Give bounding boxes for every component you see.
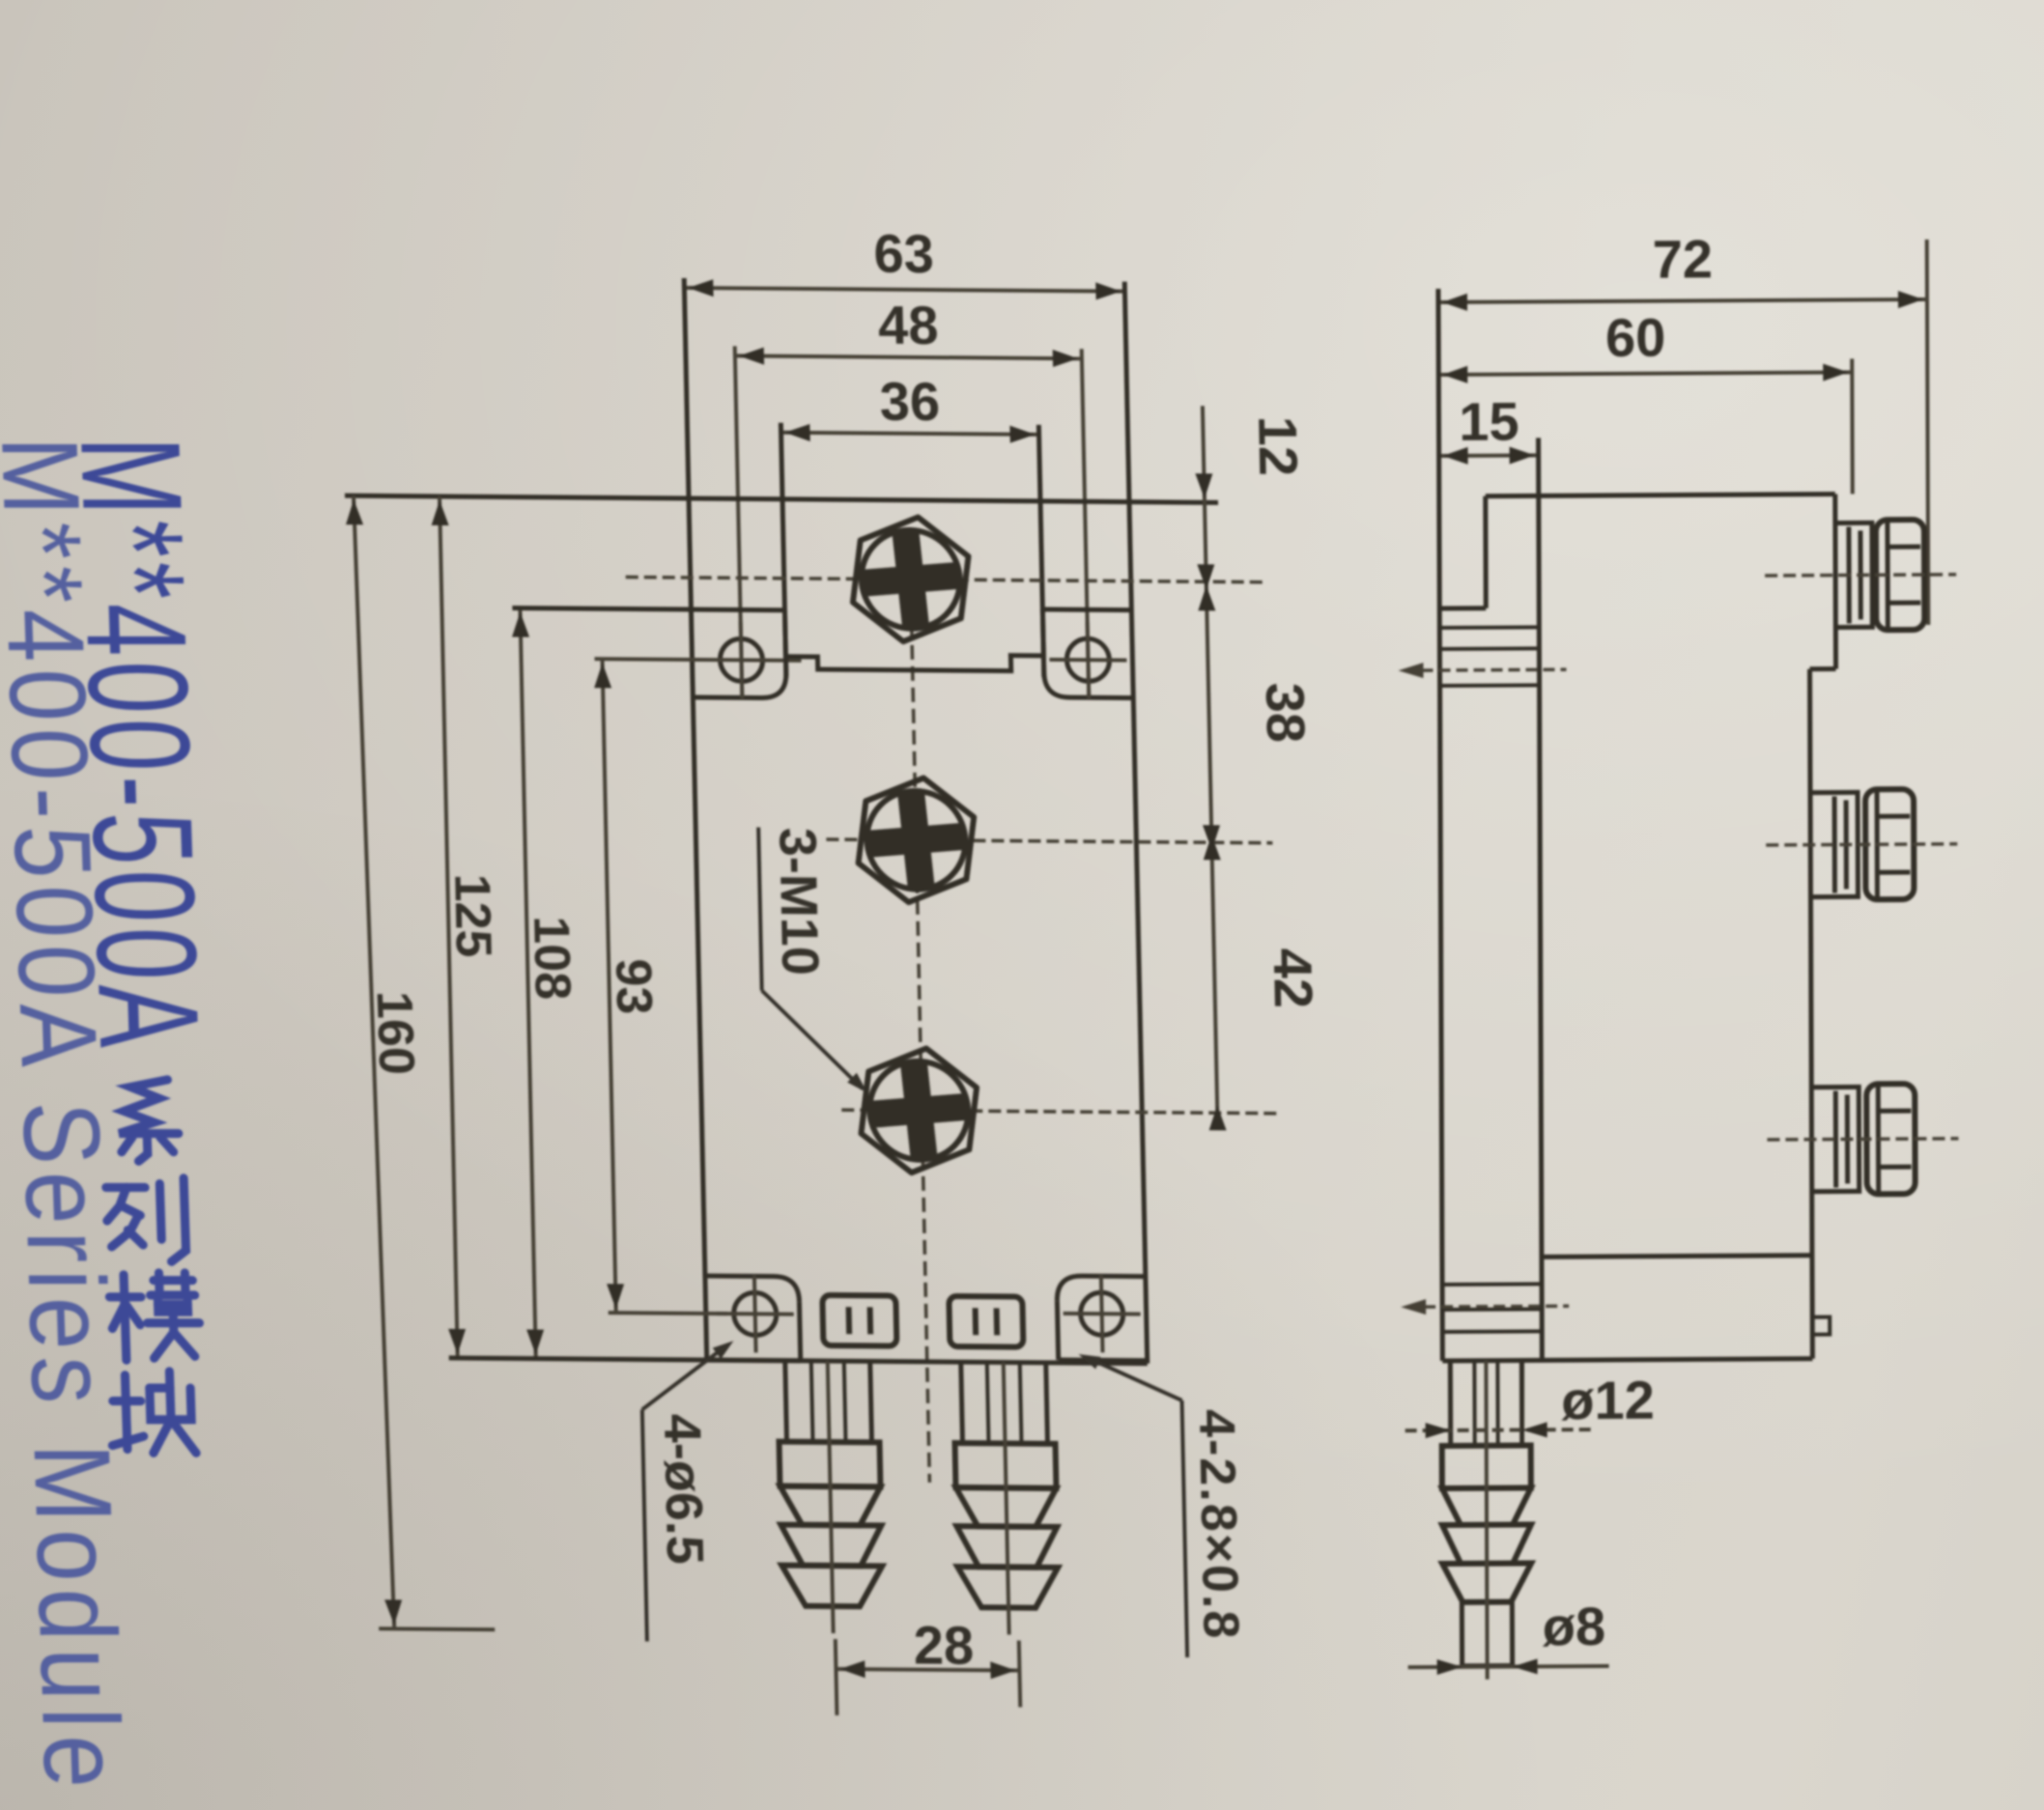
svg-text:42: 42 [1263, 948, 1324, 1009]
blue title Chinese glyph xi [118, 1080, 180, 1161]
dimension 72 overall depth [1438, 299, 1927, 302]
dimension 160 overall length [338, 495, 495, 1629]
extension tick at 160 bottom [379, 1626, 495, 1631]
left plan view of module [332, 218, 1339, 1719]
svg-text:93: 93 [605, 958, 662, 1014]
extension line ear top edge to 108 [512, 608, 784, 610]
body right edge with extension [1124, 282, 1148, 1364]
blue title Chinese glyph kuai [110, 1372, 196, 1453]
body top edge with extensions [345, 495, 1218, 502]
dimension 125 body length [440, 496, 458, 1358]
screw 1 centre line [626, 577, 1267, 581]
module right edge lower [1810, 669, 1813, 1359]
svg-text:ø12: ø12 [1561, 1370, 1655, 1431]
tab terminal left (2.8x0.8) [822, 1295, 896, 1346]
extension 60 right [1850, 358, 1855, 494]
extension line bottom hole centre to 93 [609, 1311, 727, 1315]
blue title Chinese glyph lie [105, 1178, 185, 1261]
base top edge [1439, 606, 1486, 610]
extension line top hole centre to 93 [595, 659, 802, 661]
svg-text:12: 12 [1247, 415, 1309, 476]
substrate layer lines bottom [1442, 1282, 1542, 1287]
svg-text:63: 63 [873, 223, 935, 284]
right side view of module [1397, 227, 1961, 1680]
svg-text:36: 36 [879, 371, 941, 432]
extension line 48 left / top-left hole centre [735, 346, 743, 697]
body bottom edge with left extension [449, 1358, 1148, 1364]
svg-text:3-M10: 3-M10 [768, 828, 829, 976]
svg-text:15: 15 [1459, 390, 1519, 451]
dimension 42 arrows [1203, 825, 1221, 850]
terminal bolt 3 side view [1811, 1087, 1859, 1191]
base front edge / 15 extension [1539, 438, 1543, 1360]
dimension o12 [1405, 1429, 1591, 1430]
top hole centre line with arrow [1405, 669, 1567, 670]
terminal bolt 2 side view [1810, 792, 1858, 896]
substrate layer lines top [1439, 625, 1539, 630]
dimension 63 top width [684, 288, 1124, 292]
extension line 48 right / top-right hole centre [1082, 349, 1090, 698]
bottom hole centre line with arrow [1406, 1306, 1569, 1307]
module mid step line [1542, 1256, 1812, 1258]
hex terminal screw 2 [857, 778, 976, 903]
mounting ear bottom-left with hole [707, 1358, 801, 1364]
dimension line 12-38-42 vertical [1203, 406, 1218, 1126]
screw 3 centre line [841, 1110, 1278, 1114]
dimension 108 [520, 608, 535, 1359]
step under cover edge [1810, 666, 1836, 671]
screw 2 centre line [826, 839, 1272, 843]
dimension 60 [1438, 372, 1852, 375]
svg-text:ø8: ø8 [1543, 1596, 1606, 1656]
vertical centre line through screws [910, 539, 930, 1483]
hex terminal screw 3 [860, 1048, 979, 1174]
svg-text:72: 72 [1653, 228, 1714, 289]
dimension 12 arrows [1195, 473, 1213, 498]
cover step line [785, 654, 1043, 671]
blue title Chinese glyph mo [109, 1273, 201, 1360]
extension line 36 left / cover neck left edge [781, 423, 786, 677]
svg-text:160: 160 [365, 991, 424, 1075]
cover right edge [1832, 495, 1838, 669]
pin tip [1460, 1602, 1464, 1666]
wire pin right (plan) [961, 1362, 963, 1443]
extension 72 right [1927, 240, 1929, 625]
svg-text:28: 28 [913, 1615, 975, 1676]
svg-text:108: 108 [523, 916, 581, 1000]
cover top edge [1486, 495, 1835, 496]
mounting ear top-right with hole [1042, 607, 1131, 612]
tab terminal right (2.8x0.8) [949, 1296, 1023, 1347]
dimension 36 cover neck width [781, 433, 1039, 435]
svg-text:38: 38 [1255, 683, 1317, 744]
hex terminal screw 1 [851, 517, 970, 642]
dimension 28 pin spacing [836, 1669, 1019, 1671]
body left edge with extension [684, 278, 707, 1360]
wire pin side view [1448, 1361, 1453, 1446]
mounting face left edge [1438, 289, 1442, 1361]
small boss on right edge [1812, 1317, 1830, 1335]
svg-text:60: 60 [1605, 307, 1666, 368]
dimension 15 base thickness [1439, 453, 1539, 458]
dimension 38 arrows [1197, 564, 1215, 589]
bottom edge [1442, 1359, 1812, 1361]
dimension 48 hole spacing [735, 355, 1082, 358]
mounting ear top-left with hole [691, 608, 784, 613]
svg-text:4-2.8×0.8: 4-2.8×0.8 [1188, 1409, 1249, 1641]
dimension o8 [1408, 1666, 1609, 1667]
cover left step [1483, 496, 1488, 608]
svg-text:125: 125 [443, 874, 501, 958]
dimension 93 hole spacing [603, 659, 616, 1313]
extension line 36 right / cover neck right edge [1038, 425, 1043, 677]
terminal bolt 1 side view [1835, 523, 1872, 627]
wire pin left (plan) [785, 1361, 787, 1442]
svg-text:4-ø6.5: 4-ø6.5 [653, 1414, 714, 1566]
svg-text:48: 48 [877, 295, 939, 355]
mounting ear bottom-right with hole [1059, 1357, 1148, 1363]
